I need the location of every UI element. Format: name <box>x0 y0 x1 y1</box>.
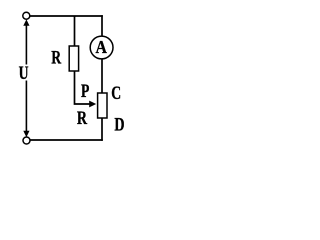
wire middle branch (top wire to resistor) <box>74 16 76 47</box>
wire bottom <box>30 139 103 141</box>
wire ammeter to rheostat <box>101 59 103 94</box>
wire resistor to wiper <box>75 71 91 104</box>
svg-text:A: A <box>96 37 107 57</box>
wire right branch (top wire to ammeter) <box>101 15 103 36</box>
terminal (bottom-left) <box>23 137 30 144</box>
wiper arrow P (into rheostat) <box>89 101 96 108</box>
node junction top of middle branch <box>74 16 76 17</box>
ammeter A <box>90 36 113 59</box>
arrowhead down (toward bottom terminal) <box>23 131 29 137</box>
svg-text:D: D <box>114 113 124 135</box>
resistor R body <box>69 46 78 71</box>
rheostat C-D body <box>98 93 107 118</box>
svg-text:R: R <box>77 107 88 129</box>
wire top <box>30 15 103 17</box>
svg-text:P: P <box>81 80 89 102</box>
voltage arrow U upper segment <box>25 22 27 65</box>
wire rheostat to bottom wire <box>101 118 103 141</box>
svg-text:C: C <box>111 82 121 104</box>
arrowhead up (toward top terminal) <box>23 19 29 25</box>
terminal (top-left) <box>23 12 30 19</box>
voltage arrow U lower segment <box>25 81 27 135</box>
svg-text:U: U <box>19 62 29 84</box>
svg-text:R: R <box>51 46 62 68</box>
